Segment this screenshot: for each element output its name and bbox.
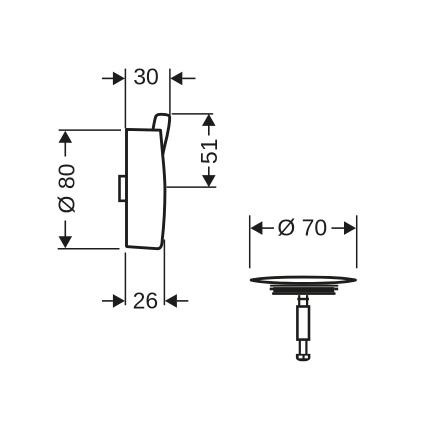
dim 26: right extension line bbox=[163, 240, 165, 306]
dim O70: left arrow bbox=[250, 221, 262, 235]
plug foot white window left bbox=[299, 356, 303, 359]
dim O70: right arrow bbox=[344, 221, 356, 235]
rear clip tab bbox=[120, 176, 127, 201]
dim 30: left arrow bbox=[102, 77, 113, 79]
dim 30: right arrow bbox=[170, 72, 182, 86]
dim 26: left extension line bbox=[124, 253, 126, 306]
cover lever fin bbox=[153, 114, 170, 154]
dim O80: bottom extension line bbox=[58, 248, 120, 250]
dim O80: top extension line bbox=[59, 129, 121, 131]
dim 51: down arrow bbox=[202, 175, 216, 187]
svg-text:51: 51 bbox=[196, 139, 222, 165]
dim 51: top extension line bbox=[172, 113, 213, 115]
dim O80: down arrow bbox=[59, 236, 73, 248]
dim O80: dimension line upper segment bbox=[64, 141, 66, 157]
plug seal right notch bbox=[334, 288, 338, 291]
dim O80: up arrow bbox=[59, 131, 73, 143]
svg-text:Ø 80: Ø 80 bbox=[53, 164, 79, 214]
dim 26: right arrow bbox=[165, 294, 177, 308]
dim O70: left extension line bbox=[249, 215, 251, 268]
dim 51: bottom extension line bbox=[167, 186, 217, 188]
dim 51: dimension line lower segment bbox=[208, 167, 210, 178]
dim O70: right extension line bbox=[356, 215, 358, 268]
plug stem cylinder bbox=[297, 307, 309, 340]
plug seal block bbox=[273, 287, 334, 292]
svg-text:26: 26 bbox=[133, 288, 159, 314]
plug cap lens bbox=[251, 277, 355, 283]
plug stem lower narrow right line bbox=[305, 340, 307, 355]
plug foot white window right bbox=[305, 356, 308, 359]
dim 30: left extension line bbox=[124, 69, 126, 129]
cover body side view bbox=[127, 129, 165, 248]
dim 26: left arrow bbox=[102, 300, 113, 302]
dim 51: dimension line upper segment bbox=[208, 125, 210, 136]
plug stem lower narrow left line bbox=[299, 340, 301, 355]
plug seal ring top bbox=[270, 285, 339, 287]
plug seal left notch bbox=[270, 288, 274, 291]
plug stem neck rung bbox=[297, 298, 309, 300]
dim 30: right extension line bbox=[169, 69, 171, 116]
svg-text:30: 30 bbox=[133, 63, 159, 89]
svg-text:Ø 70: Ø 70 bbox=[277, 215, 327, 241]
plug seal bottom bar bbox=[272, 292, 336, 295]
plug stem neck right line bbox=[306, 295, 308, 307]
plug foot nut bbox=[296, 354, 311, 361]
dim O80: dimension line lower segment bbox=[64, 221, 66, 238]
plug stem neck left line bbox=[298, 295, 300, 307]
dim 51: up arrow bbox=[202, 114, 216, 126]
